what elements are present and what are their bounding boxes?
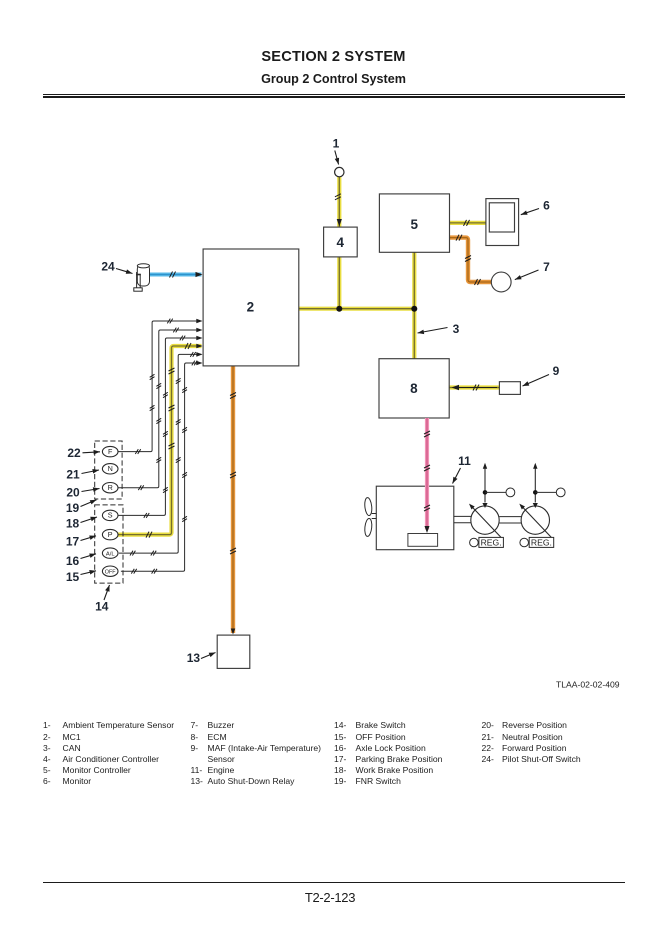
page subtitle (0, 72, 667, 86)
svg-text:R: R (108, 483, 113, 492)
page number (0, 890, 660, 905)
arrowhead: blue wire into MC1 (196, 272, 203, 277)
node 1: ambient temperature sensor circle (335, 167, 344, 176)
wire: CAN from monitor controller 5 to monitor 6 (450, 221, 487, 225)
label 9: MAF sensor callout (523, 364, 560, 386)
svg-text:24: 24 (101, 260, 115, 274)
dashed box: brake switch 14 (95, 505, 123, 583)
svg-text:9: 9 (553, 364, 560, 378)
page title (0, 49, 667, 65)
header double rule (43, 94, 625, 95)
svg-text:7: 7 (543, 260, 550, 274)
svg-text:5: 5 (411, 217, 419, 232)
regulator REG. of pump 1 (470, 537, 504, 547)
label 6: monitor callout (521, 199, 550, 215)
shaft engine to pump 1 (454, 516, 471, 522)
shaft pump 1 to pump 2 (499, 517, 521, 523)
figure code TLAA-02-02-409 (556, 679, 620, 689)
svg-text:18: 18 (66, 517, 80, 531)
arrowhead: signal arrow into ECM 8 from sensor 9 (452, 385, 498, 390)
svg-text:N: N (108, 464, 113, 473)
junction node: bus joins vertical to ECM (411, 306, 417, 312)
footer rule (43, 882, 625, 883)
contact ellipse: work brake contact S (102, 510, 118, 520)
svg-text:13: 13 (187, 651, 201, 665)
pump 2 (variable displacement) (519, 463, 565, 538)
contact ellipse: neutral contact N (102, 464, 118, 474)
label 24: pilot shut-off switch callout (101, 260, 132, 274)
contact ellipse: forward contact F (102, 446, 118, 456)
svg-text:21: 21 (66, 467, 80, 481)
svg-text:3: 3 (453, 322, 460, 336)
box 13: auto shut-down relay (217, 635, 250, 668)
legend column 2 (191, 720, 337, 787)
symbol 24: pilot shut-off switch (134, 264, 150, 292)
box 8: ECM (379, 359, 449, 418)
svg-text:19: 19 (66, 501, 80, 515)
harness hash marks on wires (130, 194, 481, 574)
svg-text:S: S (108, 511, 113, 520)
wire: blue CAN from pilot shut-off switch 24 to MC1 (150, 273, 202, 277)
wire: orange from MC1 down to auto shut-down relay 13 (231, 366, 235, 633)
wire: CAN bus horizontal from MC1 to node under monitor controller (299, 307, 415, 311)
svg-text:11: 11 (458, 454, 471, 468)
svg-text:8: 8 (410, 381, 418, 396)
box 11: engine (376, 486, 454, 550)
label 14: brake switch callout (95, 585, 109, 614)
label 13: auto shut-down relay callout (187, 651, 216, 665)
contact ellipse: off contact OFF (102, 566, 118, 576)
regulator REG. of pump 2 (520, 537, 554, 547)
wire: pink from ECM 8 down into engine 11 to starter block (425, 418, 430, 533)
legend column 1 (43, 720, 193, 787)
svg-text:14: 14 (95, 600, 109, 614)
svg-text:1: 1 (333, 137, 340, 151)
wire: orange from monitor controller 5 to buzzer 7 (450, 238, 492, 282)
label 22: forward position callout (67, 446, 100, 460)
label 17: parking brake position callout (66, 535, 96, 549)
wire: CAN vertical from monitor controller 5 through bus to ECM 8 (412, 252, 416, 358)
wire: S work brake position contact to MC1 (118, 338, 202, 515)
label 11: engine callout (453, 454, 472, 484)
wire: OFF position contact to MC1 (121, 363, 202, 571)
box 9: MAF intake-air temperature sensor (499, 382, 520, 395)
wire: parking brake position P to MC1 (yellow) (118, 346, 202, 535)
svg-text:F: F (108, 447, 113, 456)
starter block inside engine (408, 534, 438, 547)
label 7: buzzer callout (515, 260, 550, 280)
svg-text:16: 16 (66, 554, 80, 568)
label 15: OFF position callout (66, 570, 96, 584)
svg-text:4: 4 (336, 235, 344, 250)
svg-text:20: 20 (66, 485, 80, 499)
svg-text:22: 22 (67, 446, 81, 460)
box 4: relay (324, 227, 358, 257)
symbol 7: buzzer circle (491, 272, 511, 292)
label 21: neutral position callout (66, 467, 99, 481)
svg-text:15: 15 (66, 570, 80, 584)
svg-text:2: 2 (247, 300, 255, 315)
legend column 4 (482, 720, 628, 765)
label 3: CAN harness callout (418, 322, 460, 336)
label 19: FNR switch callout (66, 500, 97, 515)
wire: F forward position contact to MC1 (118, 321, 202, 452)
label 16: axle lock position callout (66, 554, 96, 569)
box 2: MC1 (203, 249, 299, 366)
dashed box: FNR switch 19 (95, 441, 122, 499)
arrowhead: orange wire into relay 13 (231, 629, 235, 635)
svg-text:P: P (108, 530, 113, 539)
wire: from ECM 8 to MAF sensor 9 (449, 385, 499, 389)
svg-text:6: 6 (543, 199, 550, 213)
pump 1 (variable displacement) (469, 463, 515, 538)
wire: CAN from pressure sensor 1 down through relay 4 to bus (337, 177, 341, 309)
svg-text:17: 17 (66, 535, 80, 549)
symbol 6: monitor (outer and screen) (486, 199, 519, 246)
svg-text:A/L: A/L (106, 551, 115, 557)
arrowheads: position wires into MC1 (196, 319, 202, 366)
contact ellipse: parking brake contact P (102, 529, 118, 539)
wire: A/L axle lock position contact to MC1 (119, 354, 202, 553)
svg-text:OFF: OFF (105, 569, 116, 575)
box 5: monitor controller (379, 194, 449, 252)
label 1: ambient temperature sensor callout (333, 137, 340, 165)
engine cooling fan (364, 497, 376, 536)
legend column 3 (334, 720, 480, 787)
contact ellipse: reverse contact R (102, 483, 118, 493)
wire: R reverse position contact to MC1 (118, 330, 202, 488)
arrowhead: CAN into relay 4 (337, 219, 342, 227)
svg-text:REG.: REG. (531, 538, 552, 548)
label 18: work brake position callout (66, 517, 97, 531)
contact ellipse: axle lock contact A/L (102, 548, 118, 558)
harness hash marks on pink wire (424, 431, 430, 511)
label 20: reverse position callout (66, 485, 99, 499)
junction node: relay wire joins CAN bus (336, 306, 342, 312)
svg-text:REG.: REG. (481, 538, 502, 548)
svg-text:TLAA-02-02-409: TLAA-02-02-409 (556, 679, 620, 689)
